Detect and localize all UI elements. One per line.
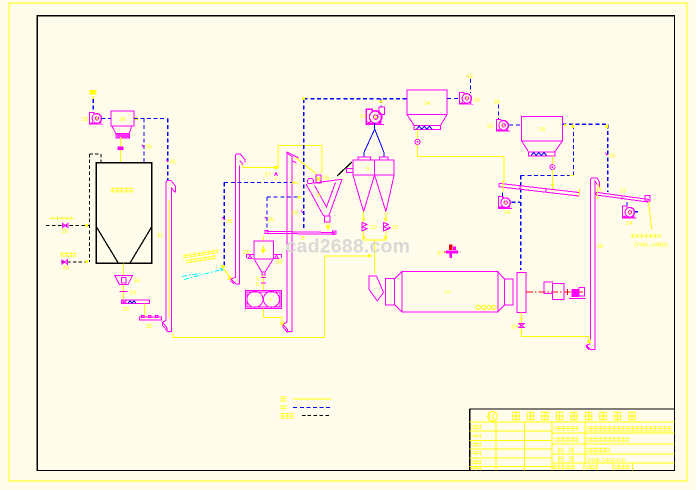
- svg-text:33: 33: [82, 117, 88, 123]
- svg-text:25: 25: [609, 154, 615, 160]
- svg-text:36: 36: [119, 117, 125, 123]
- svg-text:8: 8: [317, 193, 320, 199]
- svg-text:37: 37: [437, 251, 443, 257]
- svg-text:9: 9: [366, 167, 369, 173]
- svg-text:10: 10: [392, 225, 398, 231]
- svg-text:24: 24: [504, 210, 511, 216]
- svg-text:26: 26: [169, 160, 175, 166]
- svg-text:19: 19: [597, 244, 603, 250]
- svg-text:7: 7: [269, 298, 272, 304]
- svg-text:33: 33: [130, 291, 136, 297]
- svg-text:16: 16: [474, 98, 480, 104]
- svg-text:26: 26: [145, 145, 151, 151]
- svg-text:12: 12: [360, 114, 366, 120]
- svg-text:(Y40L-14BD): (Y40L-14BD): [634, 243, 668, 249]
- svg-text:34: 34: [134, 279, 141, 285]
- svg-text:24: 24: [626, 221, 633, 227]
- svg-text:31: 31: [157, 233, 163, 239]
- svg-text:35: 35: [63, 266, 69, 272]
- svg-text:Y40II-1404-GS: Y40II-1404-GS: [587, 458, 626, 464]
- svg-text:30: 30: [146, 324, 152, 330]
- svg-text:17: 17: [445, 290, 451, 296]
- svg-text:23: 23: [620, 189, 626, 195]
- svg-text:27: 27: [265, 173, 271, 179]
- svg-text:29: 29: [123, 307, 129, 313]
- svg-text:26: 26: [268, 218, 274, 224]
- svg-text:35: 35: [62, 229, 68, 235]
- svg-text:26: 26: [292, 211, 298, 217]
- svg-text:14: 14: [424, 101, 431, 107]
- svg-text:21: 21: [487, 124, 493, 130]
- svg-text:42: 42: [467, 74, 473, 80]
- svg-text:38: 38: [494, 100, 500, 106]
- svg-text:6: 6: [256, 282, 259, 288]
- svg-text:18: 18: [539, 127, 545, 133]
- svg-text:cad2688.com: cad2688.com: [286, 236, 411, 258]
- svg-text:25: 25: [226, 219, 232, 225]
- svg-text:28: 28: [276, 260, 282, 266]
- svg-text:26: 26: [243, 250, 249, 256]
- svg-text:33: 33: [511, 325, 517, 331]
- svg-text:10: 10: [370, 225, 376, 231]
